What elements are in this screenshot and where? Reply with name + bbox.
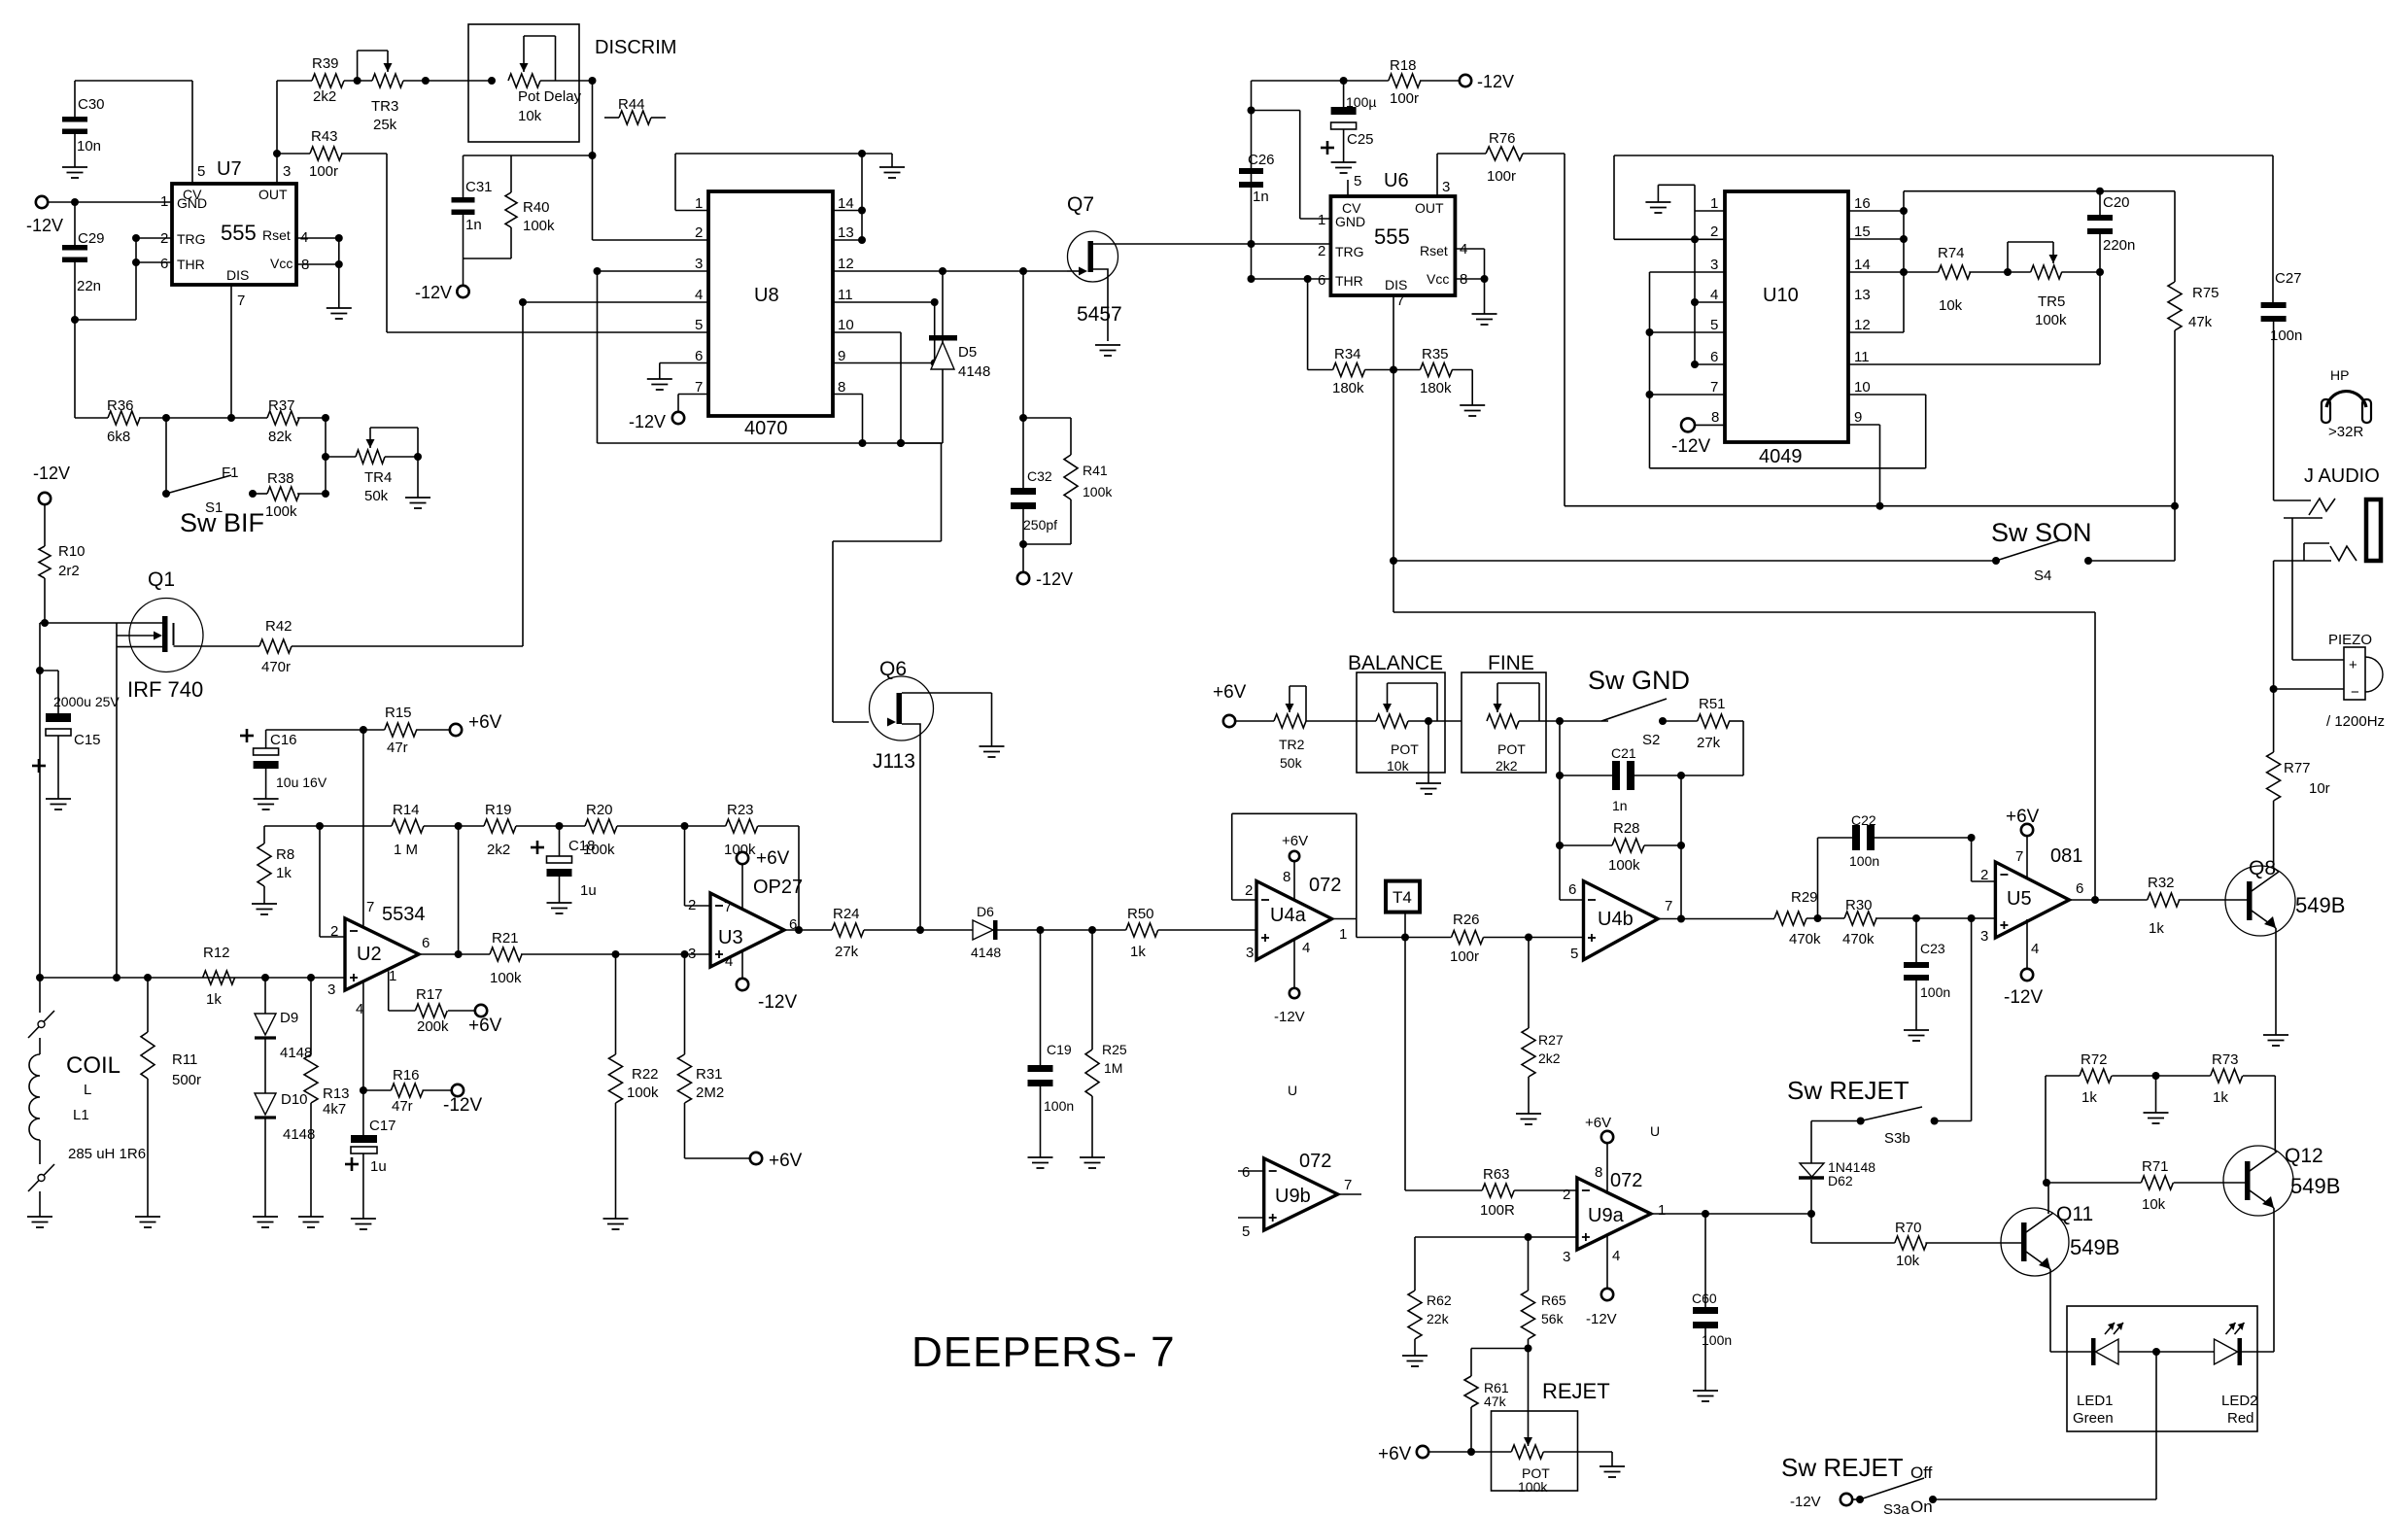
svg-text:1: 1 <box>160 193 168 210</box>
svg-text:7: 7 <box>695 379 703 396</box>
ground <box>298 1217 324 1227</box>
svg-text:-12V: -12V <box>1477 72 1514 91</box>
ground <box>1516 1114 1541 1124</box>
resistor R26 <box>1450 912 1584 965</box>
svg-text:47k: 47k <box>2188 314 2213 330</box>
svg-text:COIL: COIL <box>66 1052 120 1079</box>
ground <box>1460 405 1485 416</box>
svg-text:4: 4 <box>356 1001 363 1017</box>
svg-text:12: 12 <box>1854 317 1871 333</box>
svg-text:R30: R30 <box>1845 897 1873 913</box>
capacitor C21 <box>1560 745 1685 813</box>
wire <box>1252 111 1331 220</box>
svg-text:R39: R39 <box>312 55 339 72</box>
svg-text:Q6: Q6 <box>879 658 907 680</box>
resistor R32 <box>2148 875 2248 937</box>
wire <box>71 234 172 324</box>
svg-text:C25: C25 <box>1347 131 1374 148</box>
svg-text:Vcc: Vcc <box>1427 271 1449 287</box>
resistor R14 <box>264 802 484 858</box>
svg-text:2: 2 <box>1563 1187 1570 1203</box>
transistor Q11 <box>2001 1203 2119 1276</box>
testpoint T4 <box>1386 881 1420 938</box>
ground <box>1693 1391 1718 1401</box>
svg-text:R72: R72 <box>2081 1051 2108 1068</box>
svg-text:Rset: Rset <box>262 227 291 243</box>
terminal +6V U5 <box>2006 807 2040 878</box>
label Sw BIF <box>180 508 264 537</box>
svg-text:C15: C15 <box>74 732 101 748</box>
op-amp U2 <box>327 899 430 1017</box>
svg-text:1: 1 <box>1658 1202 1666 1219</box>
svg-text:R25: R25 <box>1102 1042 1127 1057</box>
svg-text:On: On <box>1910 1498 1933 1515</box>
svg-text:TR4: TR4 <box>364 469 392 486</box>
wire pin2 <box>1972 838 1996 881</box>
svg-text:R63: R63 <box>1483 1166 1510 1183</box>
wire +6V to U2 pin7 <box>362 730 364 928</box>
svg-text:27k: 27k <box>1697 735 1721 751</box>
svg-text:R21: R21 <box>492 930 519 947</box>
svg-text:3: 3 <box>1980 928 1988 945</box>
svg-text:100k: 100k <box>627 1085 659 1101</box>
svg-text:072: 072 <box>1309 875 1341 896</box>
pot FINE <box>1462 652 1560 774</box>
resistor R24 <box>832 906 973 960</box>
svg-text:THR: THR <box>177 257 205 272</box>
ic U8 <box>695 191 854 439</box>
svg-text:Sw BIF: Sw BIF <box>180 508 264 537</box>
resistor R11 <box>141 978 201 1217</box>
wire output <box>2071 896 2148 904</box>
wire pin2 <box>685 826 711 906</box>
svg-text:2000u 25V: 2000u 25V <box>53 694 120 709</box>
svg-text:555: 555 <box>1374 224 1410 249</box>
svg-text:Q12: Q12 <box>2285 1145 2323 1167</box>
wire <box>45 622 162 624</box>
terminal -12V <box>443 1085 482 1116</box>
resistor R18 <box>1252 57 1460 107</box>
svg-text:POT: POT <box>1497 741 1526 757</box>
trimmer TR4 <box>322 418 422 504</box>
ground <box>879 154 905 178</box>
svg-text:HP: HP <box>2330 367 2349 383</box>
pot Pot Delay <box>426 24 597 142</box>
svg-text:Vcc: Vcc <box>270 256 292 271</box>
svg-text:Pot Delay: Pot Delay <box>518 88 582 105</box>
wire pin2 <box>320 826 345 937</box>
resistor R30 <box>1842 897 1995 947</box>
resistor R8 <box>258 826 294 904</box>
svg-text:R71: R71 <box>2142 1158 2169 1175</box>
wire emitter <box>2050 1269 2091 1352</box>
svg-text:2: 2 <box>695 224 703 241</box>
wire pin3 <box>594 267 944 447</box>
svg-text:4: 4 <box>1710 287 1718 303</box>
svg-text:3: 3 <box>688 946 696 962</box>
svg-text:Sw REJET: Sw REJET <box>1787 1076 1909 1105</box>
ic U10 <box>1710 191 1871 467</box>
svg-text:-12V: -12V <box>1274 1009 1305 1025</box>
wire pin5 <box>1347 180 1349 196</box>
svg-text:+6V: +6V <box>1282 833 1308 849</box>
svg-text:6: 6 <box>2076 880 2083 897</box>
svg-text:R70: R70 <box>1895 1220 1922 1236</box>
svg-text:2k2: 2k2 <box>487 842 510 858</box>
terminal -12V <box>33 464 70 546</box>
svg-text:OUT: OUT <box>258 187 288 202</box>
svg-text:13: 13 <box>838 224 854 241</box>
label DEEPERS-7 <box>912 1328 1176 1376</box>
svg-text:100r: 100r <box>1450 948 1479 965</box>
svg-text:1n: 1n <box>1253 189 1269 205</box>
svg-text:J113: J113 <box>873 750 915 773</box>
capacitor C27 <box>2261 155 2303 500</box>
wire <box>1971 918 1973 1121</box>
svg-text:4049: 4049 <box>1759 446 1803 467</box>
trimmer TR2 <box>1274 686 1376 771</box>
svg-text:+6V: +6V <box>1213 682 1247 703</box>
svg-text:U8: U8 <box>754 285 779 306</box>
svg-text:2: 2 <box>160 230 168 247</box>
svg-text:-12V: -12V <box>629 412 666 431</box>
resistor R17 <box>389 971 475 1035</box>
ground <box>980 746 1005 757</box>
terminal +6V U9a <box>1585 1115 1613 1192</box>
svg-text:100µ: 100µ <box>1346 94 1376 110</box>
ground <box>62 167 87 178</box>
svg-text:14: 14 <box>1854 257 1871 273</box>
svg-text:1: 1 <box>695 195 703 212</box>
svg-text:DISCRIM: DISCRIM <box>595 37 676 58</box>
svg-text:TR2: TR2 <box>1279 737 1305 752</box>
svg-text:1: 1 <box>389 968 396 984</box>
svg-text:2k2: 2k2 <box>1496 758 1518 774</box>
svg-text:U7: U7 <box>217 158 242 180</box>
terminal -12V <box>1017 569 1073 589</box>
wire feedback <box>1232 813 1357 937</box>
svg-text:R10: R10 <box>58 543 86 560</box>
wire Rset Vcc <box>1456 249 1489 314</box>
resistor R37 <box>166 397 329 445</box>
svg-text:−: − <box>2351 684 2359 701</box>
svg-text:549B: 549B <box>2295 893 2345 917</box>
wire pins 9 10 <box>1848 395 1926 510</box>
wire pin5 <box>341 154 708 332</box>
node <box>41 619 49 627</box>
resistor R76 <box>1437 130 1565 506</box>
terminal -12V <box>629 395 708 432</box>
svg-text:10: 10 <box>1854 379 1871 396</box>
svg-text:U6: U6 <box>1384 170 1409 191</box>
resistor R34 <box>1308 279 1393 396</box>
svg-text:072: 072 <box>1299 1151 1331 1172</box>
wire pin4 <box>360 981 367 1094</box>
svg-text:2: 2 <box>1245 882 1253 899</box>
svg-text:C60: C60 <box>1692 1291 1717 1306</box>
wire pins 13 14 <box>833 154 866 244</box>
wire <box>1405 938 1482 1190</box>
svg-text:6: 6 <box>422 935 430 951</box>
svg-text:R18: R18 <box>1390 57 1417 74</box>
svg-text:100r: 100r <box>1390 90 1419 107</box>
svg-text:+6V: +6V <box>1585 1115 1611 1131</box>
wire pin10 <box>833 332 901 443</box>
svg-text:1: 1 <box>1710 195 1718 212</box>
svg-text:Rset: Rset <box>1420 243 1448 258</box>
trimmer TR3 <box>344 51 430 133</box>
capacitor C32 <box>1011 271 1057 572</box>
svg-text:R24: R24 <box>833 906 860 922</box>
svg-text:50k: 50k <box>364 488 389 504</box>
svg-text:47r: 47r <box>392 1098 413 1115</box>
svg-text:5: 5 <box>695 317 703 333</box>
svg-text:Q1: Q1 <box>148 568 175 591</box>
svg-text:R12: R12 <box>203 945 230 961</box>
wire <box>36 974 345 981</box>
svg-text:10r: 10r <box>2309 780 2330 797</box>
label J AUDIO <box>2304 465 2380 487</box>
svg-text:4k7: 4k7 <box>323 1101 346 1118</box>
svg-text:F1: F1 <box>222 465 239 481</box>
svg-text:TRG: TRG <box>177 231 206 247</box>
svg-text:6: 6 <box>695 348 703 364</box>
wire <box>833 439 942 727</box>
svg-text:R29: R29 <box>1791 889 1818 906</box>
svg-text:R76: R76 <box>1489 130 1516 147</box>
svg-text:2k2: 2k2 <box>313 88 336 105</box>
resistor R50 <box>1126 906 1256 960</box>
ground <box>1645 202 1670 213</box>
label Sw REJET <box>1781 1453 1904 1482</box>
capacitor C30 <box>62 81 105 167</box>
svg-text:6: 6 <box>1710 349 1718 365</box>
ground <box>1904 1030 1929 1041</box>
svg-text:82k: 82k <box>268 429 292 445</box>
svg-text:Q7: Q7 <box>1067 193 1094 216</box>
wire <box>1614 155 2273 243</box>
svg-text:U: U <box>1288 1083 1297 1098</box>
svg-text:13: 13 <box>1854 287 1871 303</box>
svg-text:Green: Green <box>2073 1410 2114 1427</box>
svg-text:R28: R28 <box>1613 820 1640 837</box>
resistor R51 <box>1681 696 1743 775</box>
ground <box>1600 1452 1625 1477</box>
svg-text:Sw GND: Sw GND <box>1588 666 1690 695</box>
wire <box>230 285 232 418</box>
capacitor C20 <box>2087 191 2135 272</box>
svg-text:549B: 549B <box>2070 1235 2119 1259</box>
ground <box>1095 345 1120 356</box>
svg-text:C32: C32 <box>1027 468 1052 484</box>
transistor Q8 <box>2225 857 2345 936</box>
svg-text:100k: 100k <box>523 218 555 234</box>
led LED1 Green <box>2073 1323 2123 1427</box>
svg-text:50k: 50k <box>1280 755 1303 771</box>
terminal -12V <box>415 258 469 302</box>
ground <box>1028 1157 1053 1168</box>
svg-text:R19: R19 <box>485 802 512 818</box>
svg-text:100n: 100n <box>2270 327 2302 344</box>
svg-text:100k: 100k <box>490 970 522 986</box>
wire TRG THR <box>1252 244 1331 283</box>
wire collector <box>2274 868 2279 872</box>
svg-text:Off: Off <box>1910 1463 1933 1482</box>
svg-text:100n: 100n <box>1702 1332 1732 1348</box>
ground <box>1416 783 1441 794</box>
svg-text:REJET: REJET <box>1542 1379 1610 1403</box>
svg-text:100r: 100r <box>309 163 338 180</box>
svg-text:100R: 100R <box>1480 1202 1515 1219</box>
capacitor C19 <box>1028 930 1075 1157</box>
capacitor C60 <box>1692 1214 1732 1391</box>
transistor Q12 <box>2223 1145 2340 1216</box>
resistor R43 <box>277 128 342 180</box>
resistor R27 <box>1522 938 1564 1115</box>
wire <box>1565 502 2179 510</box>
resistor R12 <box>203 945 235 1008</box>
ground <box>351 1219 376 1229</box>
svg-text:549B: 549B <box>2290 1174 2340 1198</box>
ground <box>547 903 572 913</box>
diode D62 <box>1799 1121 1875 1219</box>
wire pin8 <box>833 395 863 444</box>
svg-text:10k: 10k <box>518 108 542 124</box>
svg-text:R74: R74 <box>1938 245 1965 261</box>
resistor R65 <box>1522 1237 1566 1353</box>
svg-text:-12V: -12V <box>1790 1494 1821 1510</box>
capacitor C16 <box>240 729 327 799</box>
ground <box>1402 1356 1428 1366</box>
coil L1 <box>28 978 146 1217</box>
svg-text:6: 6 <box>1568 881 1576 898</box>
svg-text:R17: R17 <box>416 986 443 1003</box>
svg-text:1k: 1k <box>2213 1089 2228 1106</box>
ground <box>254 799 279 809</box>
resistor R19 <box>484 802 585 858</box>
svg-text:6: 6 <box>160 256 168 272</box>
svg-text:R42: R42 <box>265 618 292 635</box>
ground <box>27 1217 52 1227</box>
op-amp U4a <box>1245 869 1347 961</box>
terminal -12V U5 <box>2004 919 2043 1008</box>
wire <box>40 623 45 978</box>
svg-text:4: 4 <box>725 953 733 970</box>
svg-text:100n: 100n <box>1849 853 1879 869</box>
wire output <box>1357 934 1452 942</box>
svg-text:-12V: -12V <box>1586 1311 1617 1327</box>
svg-text:5: 5 <box>1710 317 1718 333</box>
svg-text:2: 2 <box>1710 224 1718 240</box>
terminal +6V <box>1378 1444 1511 1464</box>
switch S2 Sw GND <box>1556 666 1698 748</box>
svg-text:+6V: +6V <box>769 1151 803 1171</box>
svg-text:10k: 10k <box>1939 297 1963 314</box>
svg-text:R35: R35 <box>1422 346 1449 362</box>
wire output <box>782 929 832 931</box>
svg-text:J AUDIO: J AUDIO <box>2304 465 2380 487</box>
svg-text:C27: C27 <box>2275 270 2302 287</box>
svg-text:8: 8 <box>1595 1164 1602 1181</box>
svg-text:R75: R75 <box>2192 285 2219 301</box>
svg-text:Q11: Q11 <box>2056 1203 2093 1225</box>
piezo PIEZO <box>2326 632 2385 730</box>
ic U6 <box>1318 170 1467 309</box>
svg-text:5457: 5457 <box>1077 303 1122 326</box>
svg-text:L: L <box>84 1082 91 1098</box>
svg-text:LED1: LED1 <box>2077 1393 2114 1409</box>
svg-text:1: 1 <box>1318 212 1325 228</box>
resistor R42 <box>174 618 292 675</box>
svg-text:R37: R37 <box>268 397 295 414</box>
svg-text:6k8: 6k8 <box>107 429 130 445</box>
headphones HP <box>2322 367 2371 440</box>
svg-text:Red: Red <box>2227 1410 2254 1427</box>
svg-text:Sw SON: Sw SON <box>1991 518 2092 547</box>
capacitor C25 <box>1321 81 1376 162</box>
terminal +6V <box>468 1005 502 1036</box>
trimmer TR5 <box>2008 242 2104 328</box>
svg-text:1u: 1u <box>370 1158 387 1175</box>
svg-text:500r: 500r <box>172 1072 201 1088</box>
svg-text:TR5: TR5 <box>2038 293 2065 310</box>
svg-text:S3b: S3b <box>1884 1130 1910 1147</box>
svg-text:3: 3 <box>1710 257 1718 273</box>
svg-text:4: 4 <box>2031 941 2039 957</box>
capacitor C17 <box>345 1090 396 1219</box>
resistor R61 <box>1464 1349 1529 1453</box>
ground <box>603 1219 629 1229</box>
wire <box>1933 1348 2215 1499</box>
svg-text:2M2: 2M2 <box>696 1085 724 1101</box>
svg-text:R51: R51 <box>1699 696 1726 712</box>
ic U7 <box>160 158 309 309</box>
svg-text:6: 6 <box>1242 1164 1250 1181</box>
svg-text:4148: 4148 <box>958 363 990 380</box>
wire pin6 <box>1556 721 1584 900</box>
switch S3b <box>1811 1107 1972 1147</box>
svg-text:1n: 1n <box>465 217 482 233</box>
svg-text:R11: R11 <box>172 1051 197 1068</box>
svg-text:8: 8 <box>1711 409 1719 426</box>
svg-text:3: 3 <box>283 163 291 180</box>
svg-text:DIS: DIS <box>226 267 249 283</box>
svg-text:R40: R40 <box>523 199 550 216</box>
svg-text:7: 7 <box>1344 1177 1352 1193</box>
svg-text:3: 3 <box>1246 945 1254 961</box>
resistor R25 <box>1085 930 1127 1157</box>
resistor R16 <box>363 1067 451 1115</box>
svg-text:4148: 4148 <box>971 945 1001 960</box>
svg-text:D5: D5 <box>958 344 977 361</box>
svg-text:S2: S2 <box>1642 732 1660 748</box>
label Sw REJET <box>1787 1076 1909 1105</box>
svg-text:+6V: +6V <box>1378 1444 1412 1464</box>
resistor R35 <box>1393 346 1472 405</box>
svg-text:D62: D62 <box>1828 1173 1853 1188</box>
svg-text:S4: S4 <box>2034 568 2051 584</box>
svg-text:R13: R13 <box>323 1085 350 1102</box>
ground <box>2144 1076 2169 1123</box>
wire <box>322 457 329 498</box>
wire <box>116 623 118 978</box>
ground <box>252 904 277 914</box>
svg-text:11: 11 <box>838 287 853 303</box>
svg-text:555: 555 <box>221 221 257 245</box>
wire output <box>1652 1210 1895 1243</box>
svg-text:U4a: U4a <box>1270 905 1307 926</box>
svg-text:4070: 4070 <box>744 418 788 439</box>
